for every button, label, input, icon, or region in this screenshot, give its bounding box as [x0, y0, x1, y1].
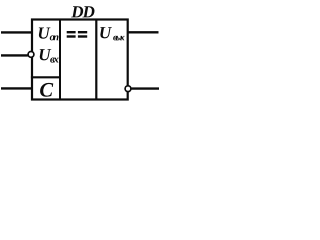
- divider between main field and output field: [95, 19, 97, 101]
- function symbol == (equality comparator): [67, 31, 88, 38]
- comparator U1 body (block DD outline): [32, 20, 128, 100]
- inversion bubble on lower output: [125, 86, 131, 92]
- pin label U vyx (output voltage): [100, 27, 124, 40]
- pin label C (clock input): [40, 83, 53, 97]
- wire input C: [1, 87, 32, 89]
- pin label U vx (input voltage): [40, 49, 59, 63]
- pin label U op (reference voltage input): [39, 27, 59, 40]
- wire output Uvyx: [128, 31, 159, 33]
- inversion bubble on Uvx input: [28, 52, 34, 58]
- wire inverted output: [131, 87, 159, 89]
- divider between left pin field and main field: [59, 19, 61, 101]
- wire input Uop: [1, 31, 32, 33]
- wire input Uvx: [1, 54, 28, 56]
- divider above clock cell C: [31, 76, 60, 78]
- chip designator label DD: [71, 6, 94, 17]
